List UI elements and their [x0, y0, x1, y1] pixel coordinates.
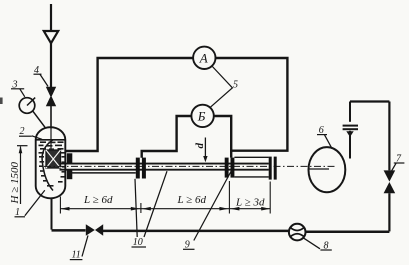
svg-text:L ≥ 6d: L ≥ 6d: [83, 194, 113, 206]
svg-text:9: 9: [185, 239, 190, 250]
svg-text:6: 6: [319, 125, 324, 136]
svg-text:10: 10: [133, 237, 143, 248]
svg-text:3: 3: [12, 80, 18, 91]
svg-text:H ≥ 1500: H ≥ 1500: [9, 162, 21, 205]
svg-text:L ≥ 6d: L ≥ 6d: [177, 194, 207, 206]
svg-text:5: 5: [233, 80, 238, 91]
svg-text:1: 1: [15, 207, 20, 218]
svg-text:Б: Б: [197, 109, 206, 124]
svg-text:2: 2: [20, 126, 25, 137]
svg-text:L ≥ 3d: L ≥ 3d: [235, 196, 265, 208]
svg-text:8: 8: [324, 240, 329, 251]
svg-text:A: A: [199, 51, 208, 66]
svg-text:4: 4: [34, 65, 39, 76]
svg-text:11: 11: [72, 249, 81, 260]
svg-text:d: d: [194, 143, 206, 149]
